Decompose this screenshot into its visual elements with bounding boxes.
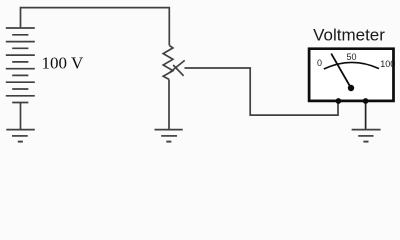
voltmeter + terminal dot: [336, 98, 342, 104]
wiper arrow of R1: [170, 60, 185, 75]
voltmeter - terminal dot: [363, 98, 369, 104]
voltmeter needle pivot: [348, 85, 354, 91]
svg-text:Voltmeter: Voltmeter: [313, 26, 385, 45]
voltmeter M1 border (top stroke): [309, 49, 393, 101]
wire battery top to pot top: [21, 8, 170, 46]
voltmeter scale arc: [324, 62, 379, 69]
wire pot bottom to ground: [168, 79, 170, 129]
ground (battery): [6, 130, 35, 142]
svg-text:50: 50: [346, 52, 356, 62]
voltmeter needle: [331, 54, 351, 88]
wire wiper to voltmeter + terminal: [185, 68, 339, 115]
potentiometer R1: [163, 45, 173, 79]
ground (voltmeter): [352, 130, 381, 142]
wire battery bottom to ground: [20, 103, 22, 130]
svg-text:100 V: 100 V: [42, 53, 84, 72]
voltmeter M1 body: [309, 49, 393, 101]
ground (potentiometer): [155, 130, 183, 142]
wire voltmeter - terminal to ground: [365, 102, 367, 130]
svg-text:0: 0: [317, 58, 322, 68]
battery B1: [6, 28, 35, 103]
